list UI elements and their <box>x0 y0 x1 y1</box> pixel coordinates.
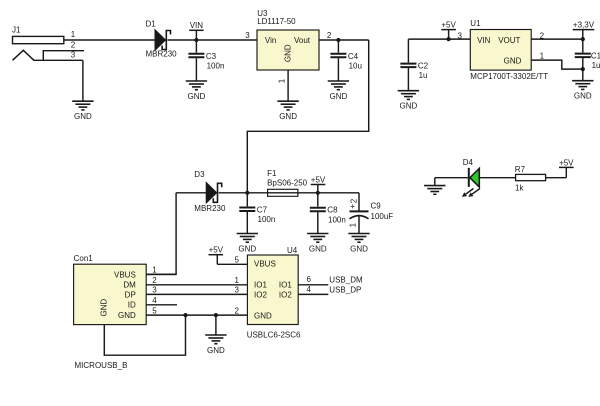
svg-text:10u: 10u <box>349 61 362 70</box>
svg-text:1: 1 <box>71 30 76 39</box>
svg-text:GND: GND <box>238 244 256 253</box>
svg-text:+5V: +5V <box>209 246 224 255</box>
svg-text:GND: GND <box>74 112 92 121</box>
svg-text:U1: U1 <box>470 19 481 28</box>
svg-text:GND: GND <box>309 244 327 253</box>
svg-text:U4: U4 <box>287 246 298 255</box>
svg-text:2: 2 <box>349 198 358 203</box>
svg-text:2: 2 <box>327 31 332 40</box>
svg-text:+5V: +5V <box>311 175 326 184</box>
svg-text:1u: 1u <box>419 71 428 80</box>
svg-text:1: 1 <box>540 52 545 61</box>
svg-text:VBUS: VBUS <box>114 270 136 279</box>
svg-text:IO2: IO2 <box>279 290 292 299</box>
svg-text:GND: GND <box>279 112 297 121</box>
svg-text:GND: GND <box>350 244 368 253</box>
svg-text:F1: F1 <box>267 169 277 178</box>
svg-text:USBLC6-2SC6: USBLC6-2SC6 <box>247 331 301 340</box>
svg-text:VOUT: VOUT <box>498 36 520 45</box>
svg-text:5: 5 <box>234 255 239 264</box>
svg-text:+3,3V: +3,3V <box>573 21 595 30</box>
svg-text:VIN: VIN <box>190 21 204 30</box>
svg-text:GND: GND <box>118 311 136 320</box>
svg-text:2: 2 <box>152 276 157 285</box>
svg-text:C2: C2 <box>418 62 429 71</box>
svg-text:MICROUSB_B: MICROUSB_B <box>75 361 128 370</box>
svg-text:BpS06-250: BpS06-250 <box>267 178 308 187</box>
svg-text:DP: DP <box>125 290 136 299</box>
svg-text:GND: GND <box>254 311 272 320</box>
svg-text:C3: C3 <box>206 52 217 61</box>
svg-text:1: 1 <box>234 276 239 285</box>
svg-text:1u: 1u <box>592 61 600 70</box>
svg-text:1: 1 <box>349 222 358 227</box>
svg-text:VBUS: VBUS <box>254 259 276 268</box>
svg-text:GND: GND <box>574 92 592 101</box>
svg-text:C1: C1 <box>591 52 600 61</box>
svg-text:1: 1 <box>278 78 287 83</box>
svg-text:D3: D3 <box>194 170 205 179</box>
svg-text:3: 3 <box>152 286 157 295</box>
svg-text:GND: GND <box>99 298 108 316</box>
svg-text:C7: C7 <box>257 206 268 215</box>
svg-text:1: 1 <box>152 265 157 274</box>
svg-text:IO1: IO1 <box>279 281 292 290</box>
svg-text:J1: J1 <box>12 25 21 34</box>
svg-text:3: 3 <box>234 286 239 295</box>
svg-text:100n: 100n <box>328 215 346 224</box>
svg-text:USB_DM: USB_DM <box>329 275 363 284</box>
svg-text:C8: C8 <box>327 206 338 215</box>
svg-text:GND: GND <box>188 92 206 101</box>
svg-text:1k: 1k <box>515 184 524 193</box>
svg-text:D4: D4 <box>463 158 474 167</box>
svg-text:VIN: VIN <box>477 36 491 45</box>
svg-text:3: 3 <box>71 51 76 60</box>
svg-text:Vin: Vin <box>265 36 276 45</box>
svg-text:3: 3 <box>245 31 250 40</box>
svg-text:IO2: IO2 <box>254 290 267 299</box>
svg-text:4: 4 <box>307 285 312 294</box>
svg-text:5: 5 <box>152 306 157 315</box>
svg-text:6: 6 <box>307 275 312 284</box>
svg-text:Vout: Vout <box>294 36 311 45</box>
svg-text:100uF: 100uF <box>371 212 394 221</box>
svg-text:4: 4 <box>152 296 157 305</box>
svg-text:100n: 100n <box>207 61 225 70</box>
svg-text:IO1: IO1 <box>254 281 267 290</box>
svg-text:GND: GND <box>330 92 348 101</box>
svg-text:C4: C4 <box>348 52 359 61</box>
svg-text:C9: C9 <box>371 202 382 211</box>
svg-text:ID: ID <box>128 301 136 310</box>
svg-text:100n: 100n <box>258 215 276 224</box>
svg-text:MCP1700T-3302E/TT: MCP1700T-3302E/TT <box>470 72 548 81</box>
svg-text:GND: GND <box>400 102 418 111</box>
svg-text:R7: R7 <box>515 165 526 174</box>
svg-text:MBR230: MBR230 <box>194 204 226 213</box>
svg-text:DM: DM <box>123 281 136 290</box>
svg-text:GND: GND <box>207 346 225 355</box>
svg-text:GND: GND <box>504 56 522 65</box>
svg-text:2: 2 <box>234 307 239 316</box>
svg-text:MBR230: MBR230 <box>146 50 178 59</box>
svg-text:3: 3 <box>458 31 463 40</box>
svg-text:+5V: +5V <box>441 21 456 30</box>
svg-text:D1: D1 <box>146 19 157 28</box>
svg-text:Con1: Con1 <box>74 254 94 263</box>
svg-text:+5V: +5V <box>559 158 574 167</box>
svg-text:USB_DP: USB_DP <box>329 285 361 294</box>
svg-text:2: 2 <box>71 41 76 50</box>
svg-text:GND: GND <box>284 44 293 62</box>
svg-text:LD1117-50: LD1117-50 <box>257 17 296 26</box>
